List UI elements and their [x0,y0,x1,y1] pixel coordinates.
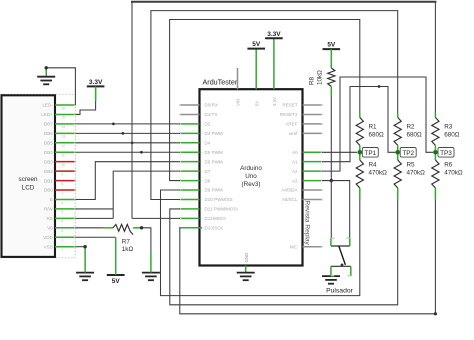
wire 5V to R8 [330,49,332,68]
svg-text:D6 PWM: D6 PWM [205,159,223,164]
testpoint TP2 [400,148,416,158]
label Arduino Uno (Rev3) [240,165,262,188]
wire LED- to ground [45,66,76,105]
svg-text:Arduino: Arduino [240,165,262,172]
svg-text:GND: GND [244,253,249,263]
wire R8 to button [330,86,332,238]
svg-text:A0: A0 [292,150,298,155]
svg-text:TP2: TP2 [402,150,414,157]
wire D13 loop to R6 bottom [180,200,436,314]
svg-text:screen: screen [19,176,38,183]
svg-text:RS: RS [46,216,52,221]
wire V0 to R7 [75,227,113,229]
svg-text:D13/SCK: D13/SCK [205,226,224,231]
svg-text:12: 12 [62,144,66,148]
wire DB5 to D4 [75,142,180,144]
resistor R3 680 / R6 470k column [432,113,463,199]
svg-text:3.3V: 3.3V [267,31,281,38]
svg-text:DB7: DB7 [44,122,53,127]
wire A1 to TP2 [322,87,395,162]
resistor R1 680 / R4 470k column [356,113,387,199]
svg-text:R6: R6 [444,162,453,169]
label Revista Replay (vertical) [303,201,310,246]
svg-text:D2: D2 [205,122,211,127]
svg-text:D11 PWM/MOSI: D11 PWM/MOSI [205,207,238,212]
svg-text:(Rev3): (Rev3) [242,181,261,188]
testpoint TP3 [438,148,454,158]
svg-text:R5: R5 [407,162,416,169]
wire VDD to 5V inverted [75,237,115,275]
svg-text:5: 5 [62,210,64,214]
wire D12 stub segment [132,217,180,219]
svg-text:D12/MISO: D12/MISO [205,216,227,221]
svg-text:5V: 5V [112,278,121,285]
svg-text:TP3: TP3 [440,150,452,157]
svg-text:DB5: DB5 [44,140,53,145]
Arduino bottom pin GND stub [245,266,247,273]
svg-text:A4/SDA: A4/SDA [281,188,298,193]
power 5V inverted (LCD VDD) [107,275,125,285]
svg-text:A3: A3 [292,178,298,183]
resistor R7 1k [113,224,133,234]
wire R7 to ground [133,226,151,272]
svg-text:R4: R4 [369,162,378,169]
svg-text:DB0: DB0 [44,188,53,193]
bendpoint DB5 [131,141,134,144]
power 5V (arduino) [247,41,265,48]
ground (LCD VSS) [76,273,94,281]
svg-text:470kΩ: 470kΩ [444,170,463,177]
svg-text:LED-: LED- [42,103,53,108]
wire DB4 to D5 [75,151,180,153]
svg-text:DB3: DB3 [44,159,53,164]
svg-text:5V: 5V [327,42,336,49]
svg-text:3: 3 [62,229,64,233]
svg-text:5V: 5V [252,41,261,48]
svg-text:R7: R7 [122,239,131,246]
svg-text:680Ω: 680Ω [407,132,423,139]
svg-text:V0: V0 [47,226,53,231]
svg-text:6: 6 [62,201,64,205]
bendpoint A1 wire [378,85,381,88]
bendpoint DB7 [112,123,115,126]
svg-text:TP1: TP1 [364,150,376,157]
svg-text:LED+: LED+ [41,112,53,117]
svg-text:1kΩ: 1kΩ [122,246,134,253]
svg-text:13: 13 [62,135,66,139]
Arduino left pin labels [205,103,238,231]
svg-text:D1/TX: D1/TX [205,112,218,117]
pushbutton lever [339,246,346,265]
LCD label screen LCD [19,176,38,192]
svg-text:15: 15 [62,116,66,120]
svg-text:A1: A1 [292,159,298,164]
svg-text:DB1: DB1 [44,178,53,183]
node TP1 [358,150,363,155]
wire VSS to ground [75,245,86,273]
svg-text:D8: D8 [205,178,211,183]
Arduino top pin stub 5V [255,49,257,90]
svg-text:1: 1 [62,248,64,252]
svg-text:3,3V: 3,3V [272,97,277,106]
node TP3 [433,150,438,155]
svg-text:VSS: VSS [44,244,53,249]
svg-text:R1: R1 [369,124,378,131]
wire RS to node [75,217,113,219]
svg-text:Uno: Uno [245,173,257,180]
label Pulsador [326,287,354,294]
svg-text:E: E [50,197,53,202]
svg-text:470kΩ: 470kΩ [407,170,426,177]
label R7 1k [122,239,134,253]
svg-text:470kΩ: 470kΩ [369,170,388,177]
svg-text:10kΩ: 10kΩ [317,70,324,85]
pushbutton Pulsador terminal top [331,238,350,246]
LCD pin stubs [55,105,76,247]
svg-text:R/W: R/W [44,207,54,212]
svg-text:2: 2 [62,239,64,243]
ground (Arduino GND) [237,273,255,281]
svg-text:VIN: VIN [236,99,241,106]
wire DB7 to D2 [75,123,180,125]
Arduino top pin stub VIN [237,68,239,89]
power 5V (R8) [323,42,341,49]
wire A3 to button [322,181,350,238]
pushbutton Pulsador terminal bottom [331,264,351,277]
svg-text:A2: A2 [292,169,298,174]
wire A0 to TP1 [322,151,357,153]
LCD screen box [2,95,56,257]
Arduino left pin stubs [179,105,200,228]
wire D8 loop to R1 top [170,20,360,181]
wire R/W to node [75,208,113,210]
svg-text:D3 PWM: D3 PWM [205,131,223,136]
svg-text:8: 8 [62,182,64,186]
Arduino right pin labels [280,103,299,250]
svg-text:Revista Replay: Revista Replay [303,201,310,246]
power 3.3V (arduino) [265,31,283,38]
bendpoint DB4 [140,151,143,154]
svg-text:4: 4 [62,220,64,224]
label R8 10k (vertical) [309,70,324,85]
junction A3/R8 [330,179,333,182]
wire D12 loop to R3 top [131,2,436,219]
svg-text:AREF: AREF [285,122,297,127]
svg-text:D4: D4 [205,140,211,145]
Arduino GND pin label (vertical) [244,253,249,263]
svg-text:16: 16 [62,106,66,110]
svg-text:5V: 5V [254,101,259,106]
svg-text:D9 PWM: D9 PWM [205,188,223,193]
label ArduTester [203,77,238,86]
svg-text:N/C: N/C [290,244,299,249]
svg-text:VDD: VDD [43,235,53,240]
testpoint TP1 [362,148,378,158]
svg-text:14: 14 [62,125,66,129]
svg-text:10: 10 [62,163,66,167]
Arduino Uno box [200,89,303,265]
resistor R8 10k [328,68,335,86]
svg-text:7: 7 [62,191,64,195]
svg-text:R2: R2 [407,124,416,131]
wire D11 loop to R5 bottom [170,200,398,305]
node TP2 [395,150,400,155]
LCD pin name labels [41,103,53,250]
Arduino top pin stub 3.3V [273,38,275,89]
svg-text:A5/SCL: A5/SCL [282,197,298,202]
svg-text:RESET2: RESET2 [280,112,298,117]
svg-text:RESET: RESET [282,103,297,108]
svg-text:R8: R8 [309,76,316,85]
svg-text:DB2: DB2 [44,169,53,174]
svg-text:R3: R3 [444,124,453,131]
wire D10 loop to R2 top [151,11,398,200]
svg-text:9: 9 [62,172,64,176]
LCD pin numbers [62,106,66,252]
junction D13 loop corner [434,312,437,315]
LCD courtyard (dashed) [1,94,75,258]
svg-text:D7: D7 [205,169,211,174]
resistor R2 680 / R5 470k column [394,113,425,199]
bendpoint DB6 [122,132,125,135]
wire LED+ to 3.3V [75,86,95,114]
ground (Pulsador) [322,276,340,284]
Arduino top pin labels [236,97,277,106]
wire A2 to TP3 [322,77,433,171]
svg-text:DB6: DB6 [44,131,53,136]
wire node to D7 [113,171,180,218]
ground (R7) [142,273,160,281]
power 3.3V (LCD LED+) [87,79,105,86]
svg-text:Pulsador: Pulsador [326,287,354,294]
svg-text:DB4: DB4 [44,150,53,155]
svg-text:11: 11 [62,154,66,158]
Arduino right pin stubs [303,105,324,247]
wire E to D6 [75,162,180,200]
ground (LCD LED-) [37,77,55,85]
wire D9 loop to R4 bottom [161,190,360,296]
svg-text:D0/RX: D0/RX [205,103,218,108]
svg-text:680Ω: 680Ω [369,132,385,139]
svg-text:680Ω: 680Ω [444,132,460,139]
svg-text:ioref: ioref [289,131,299,136]
svg-text:LCD: LCD [22,185,35,192]
svg-text:3.3V: 3.3V [89,79,103,86]
wire DB6 to D3 [75,132,180,134]
svg-text:D10 PWM/SS: D10 PWM/SS [205,197,233,202]
svg-text:ArduTester: ArduTester [203,77,238,86]
svg-text:D5 PWM: D5 PWM [205,150,223,155]
